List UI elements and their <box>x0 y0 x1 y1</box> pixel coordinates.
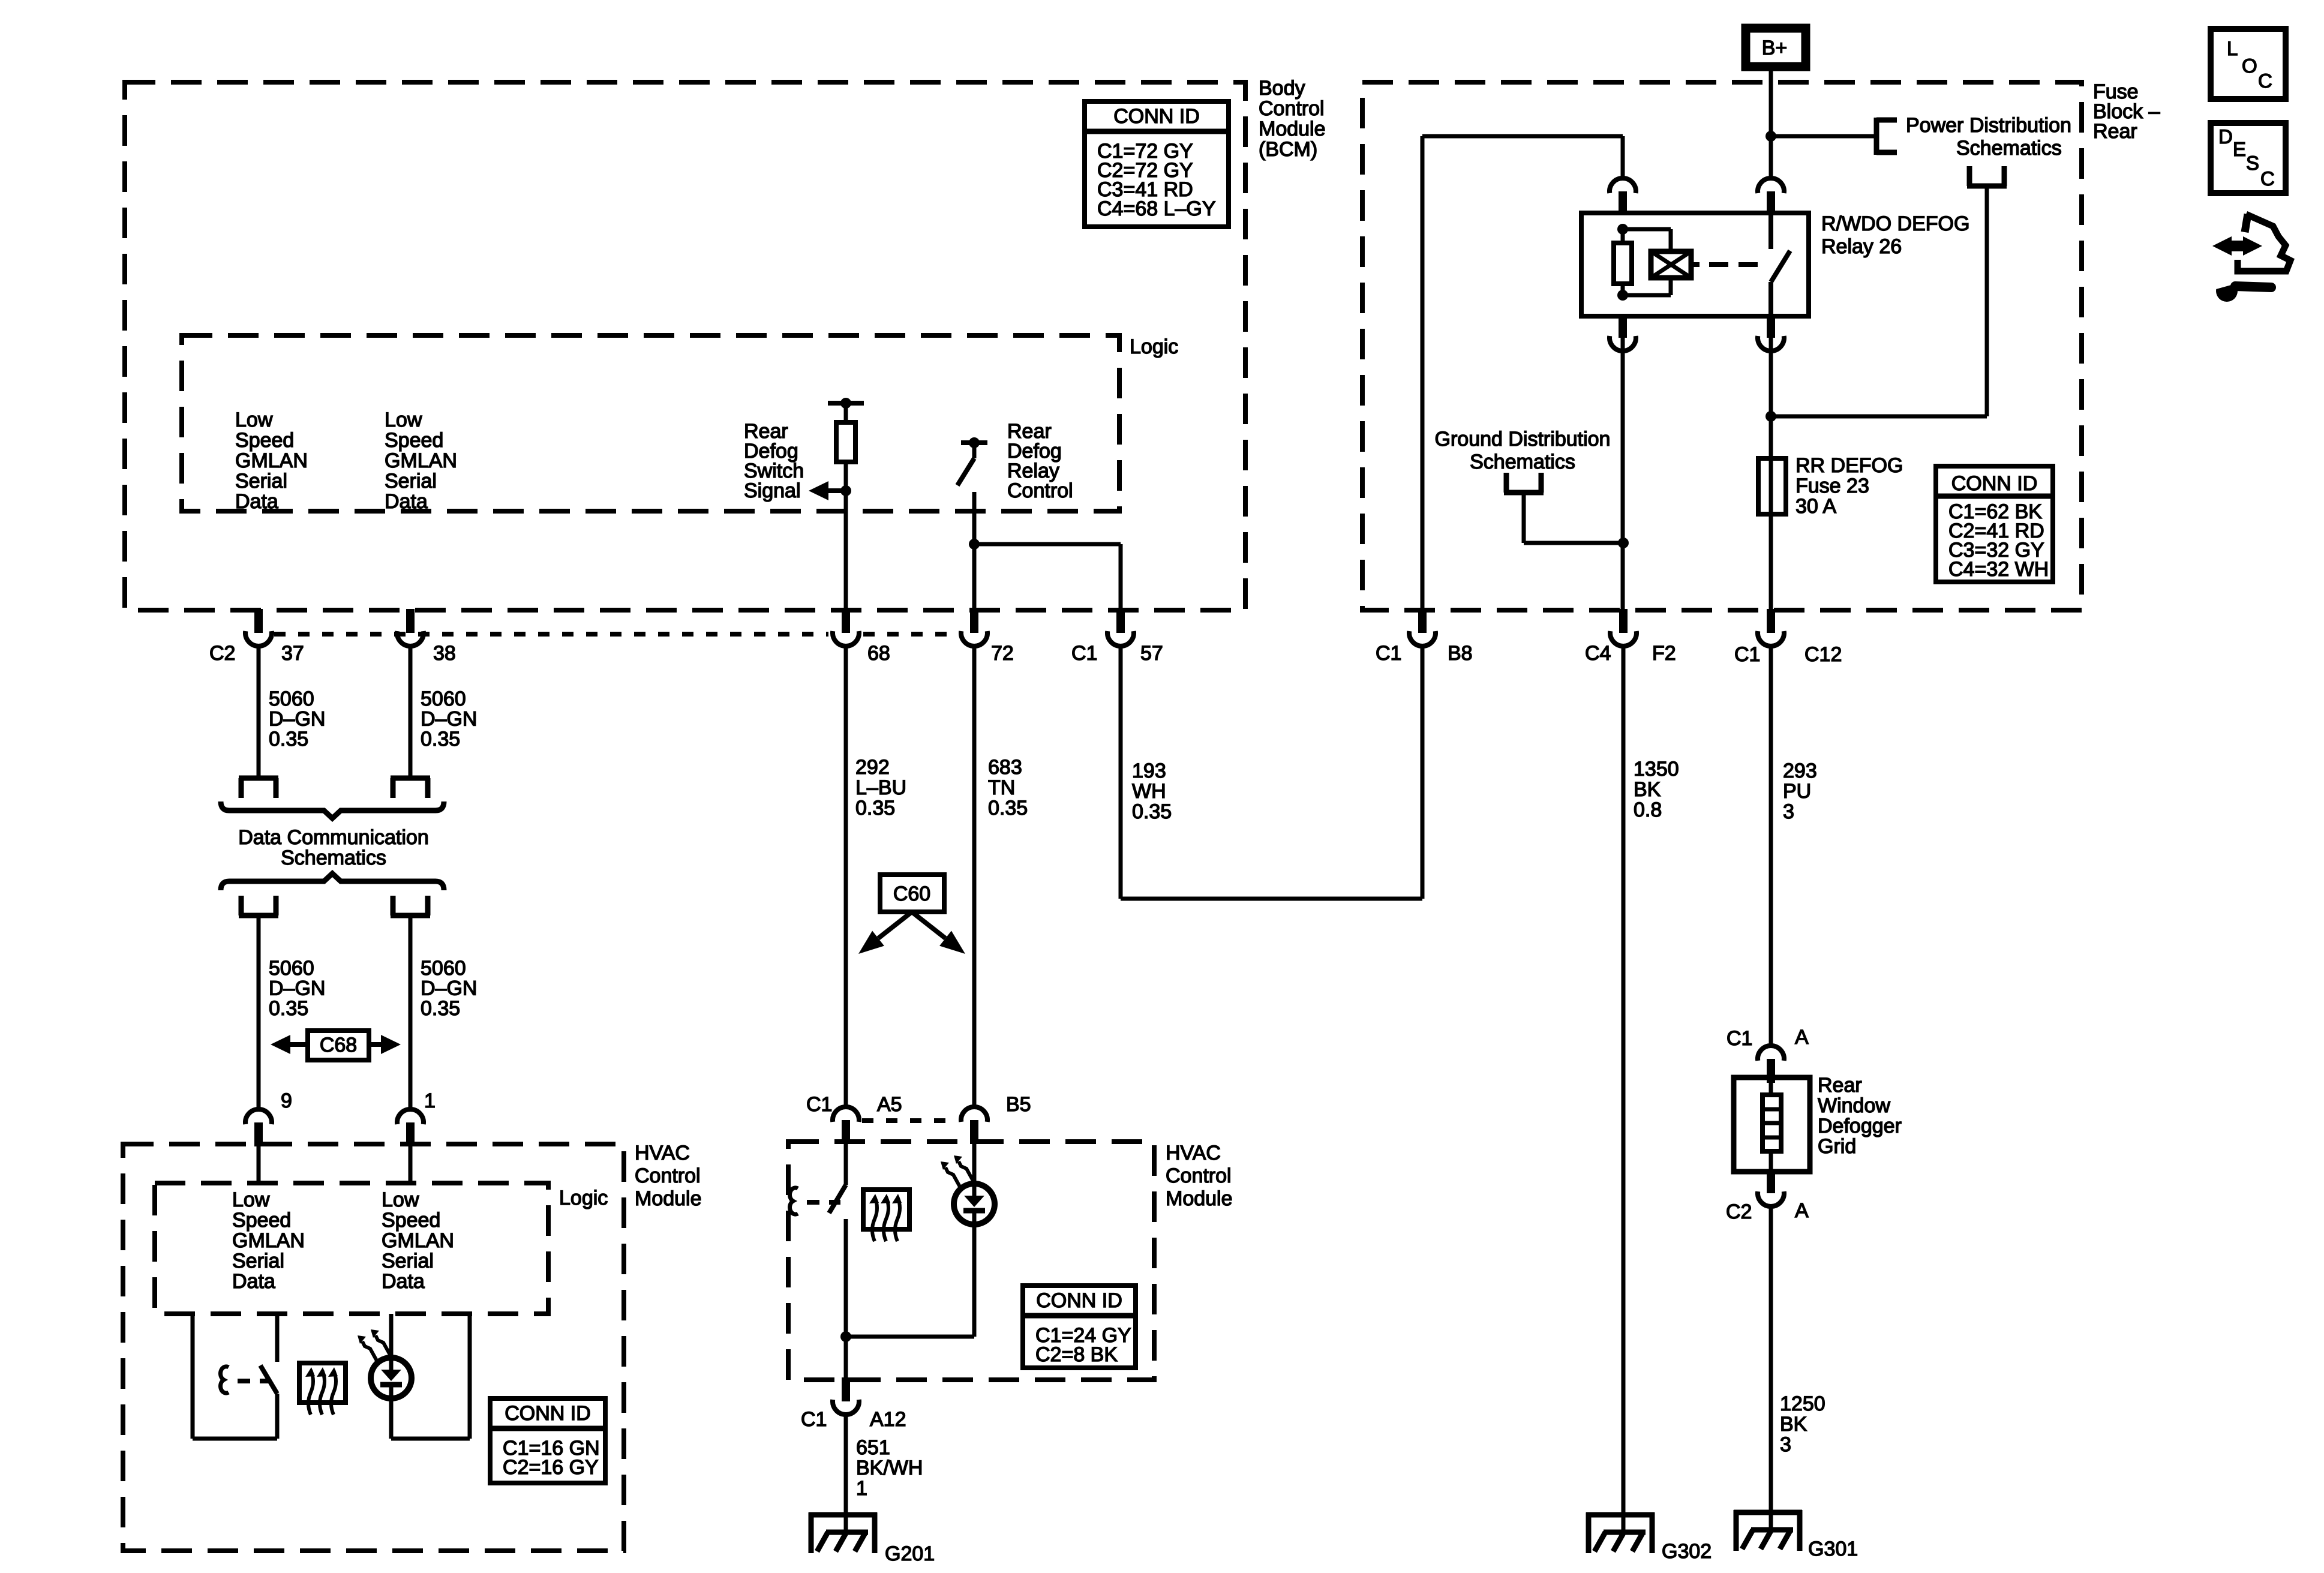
wire: LED loop right leg <box>468 1314 472 1439</box>
wire 651 BK/WH: A12 to ground <box>844 1415 848 1531</box>
module box: HVAC Control Module (left) dashed outline <box>123 1144 624 1551</box>
connector row dotted line (HVAC C1) <box>862 1118 958 1123</box>
svg-text:5060: 5060 <box>421 688 466 710</box>
svg-text:3: 3 <box>1783 800 1794 823</box>
wire: down to relay coil terminal <box>1621 136 1625 179</box>
svg-text:Schematics: Schematics <box>1956 137 2062 160</box>
svg-text:A12: A12 <box>870 1408 906 1431</box>
svg-text:0.35: 0.35 <box>269 997 308 1020</box>
wire 1250 BK: grid to G301 <box>1769 1206 1773 1529</box>
off-page pointer (37 to data communication) <box>239 776 278 781</box>
svg-text:C1: C1 <box>1071 642 1097 665</box>
svg-text:57: 57 <box>1140 642 1163 665</box>
svg-text:Power Distribution: Power Distribution <box>1906 114 2071 137</box>
wire: pin 1 into logic <box>409 1146 413 1183</box>
module box: Fuse Block - Rear dashed outline <box>1362 82 2082 610</box>
svg-text:683: 683 <box>988 756 1022 779</box>
svg-text:L–BU: L–BU <box>855 776 906 799</box>
arrow: C68 to wire 9 (left) <box>271 1035 290 1054</box>
wire: fuse 23 to C12 <box>1769 514 1773 611</box>
svg-text:72: 72 <box>991 642 1014 665</box>
connector row dotted line (BCM C2/C1) <box>274 632 828 637</box>
svg-text:5060: 5060 <box>269 688 314 710</box>
svg-text:293: 293 <box>1783 760 1817 782</box>
svg-text:Low: Low <box>385 409 422 431</box>
svg-text:C12: C12 <box>1804 643 1842 666</box>
svg-text:0.35: 0.35 <box>1132 800 1172 823</box>
wire: stub to resistor R1 <box>844 403 848 422</box>
switch contact bar (Rear Defog Relay Control driver) <box>961 440 987 445</box>
svg-text:Speed: Speed <box>382 1209 440 1232</box>
terminal: relay coil - (fuse block cavity) <box>1619 314 1627 338</box>
svg-text:Control: Control <box>635 1164 701 1187</box>
wire: switch lower contact down to BCM terminal 72 <box>972 492 977 611</box>
svg-text:Speed: Speed <box>232 1209 291 1232</box>
table: CONN ID (HVAC left) <box>490 1398 605 1483</box>
svg-text:A: A <box>1795 1026 1809 1049</box>
svg-text:Defogger: Defogger <box>1818 1115 1902 1137</box>
power feed B+ box <box>1746 28 1806 67</box>
switch dashes (HVAC left) <box>238 1379 271 1383</box>
junction dot: A12 node <box>840 1331 851 1342</box>
terminal: BCM pin 68 <box>842 609 850 633</box>
svg-text:3: 3 <box>1780 1433 1791 1456</box>
switch stub <box>972 443 977 458</box>
wire: LED down (HVAC left) <box>389 1386 394 1439</box>
svg-text:CONN ID: CONN ID <box>505 1402 591 1425</box>
grid element <box>1762 1095 1781 1151</box>
off-page pointer (38 to data communication) <box>391 776 430 781</box>
svg-text:0.8: 0.8 <box>1634 798 1662 821</box>
wire: drop to relay output node <box>1771 415 1987 419</box>
wire: resistor R1 to junction <box>844 462 848 493</box>
wire 292 L-BU: BCM 68 to HVAC A5 <box>844 646 848 1109</box>
svg-text:Speed: Speed <box>235 429 294 452</box>
wire: LED branch to A12 node <box>846 1335 974 1339</box>
svg-text:Control: Control <box>1007 479 1073 502</box>
terminal: BCM C1 pin 57 <box>1116 609 1125 633</box>
logic box: BCM Logic dashed outline <box>182 335 1119 511</box>
terminal: HVAC C1 A5 <box>842 1120 850 1144</box>
svg-text:Relay 26: Relay 26 <box>1821 235 1902 258</box>
svg-text:Schematics: Schematics <box>281 846 386 869</box>
table: CONN ID (BCM) <box>1085 101 1229 227</box>
resistor R1: Rear Defog Switch Signal pull-up <box>836 422 855 462</box>
svg-text:O: O <box>2242 55 2257 77</box>
svg-text:Serial: Serial <box>235 470 287 493</box>
wire 293 PU: C12 to grid connector <box>1769 646 1773 1046</box>
switch blade (HVAC center defog switch) <box>829 1185 846 1213</box>
svg-text:RR DEFOG: RR DEFOG <box>1795 454 1903 477</box>
heater element icon (HVAC left) <box>299 1363 346 1403</box>
svg-text:F2: F2 <box>1652 642 1676 665</box>
arrow: C60 to wire 683 (down-right) <box>912 912 945 938</box>
junction dot: relay output node <box>1765 411 1776 422</box>
wire: inside fuse <box>1769 458 1773 514</box>
LED indicator (HVAC left) <box>371 1358 412 1398</box>
svg-text:R/WDO DEFOG: R/WDO DEFOG <box>1821 212 1969 235</box>
wire: coil branch top <box>1623 227 1671 232</box>
momentary hook (HVAC left switch) <box>221 1367 229 1393</box>
relay switch blade (open) <box>1771 251 1790 282</box>
wire: branch from 72 wire to 57 wire <box>974 542 1121 547</box>
wire: switch to junction A12 <box>844 1219 848 1380</box>
svg-text:9: 9 <box>281 1089 292 1112</box>
terminal: relay coil + (fuse block cavity) <box>1619 191 1627 215</box>
terminal: relay common (fuse block cavity) <box>1767 191 1775 215</box>
svg-text:G302: G302 <box>1662 1540 1712 1563</box>
svg-text:651: 651 <box>856 1436 890 1459</box>
wire: coil resistor top <box>1621 229 1625 243</box>
switch blade (HVAC left defog switch) <box>260 1365 277 1394</box>
svg-text:C1: C1 <box>1727 1027 1752 1050</box>
svg-text:37: 37 <box>281 642 304 665</box>
svg-text:WH: WH <box>1132 780 1166 803</box>
node: resistor top stub bar <box>828 401 864 406</box>
wire 5060 D-GN from pin 38 <box>409 646 413 778</box>
brace: to Data Communication Schematics (top) <box>221 801 444 818</box>
wire: power distribution drop down <box>1985 186 1989 416</box>
wire: logic to LED (HVAC left) <box>389 1314 394 1371</box>
svg-text:1: 1 <box>424 1089 436 1112</box>
wire 683 TN: BCM 72 to HVAC B5 <box>972 646 977 1109</box>
svg-text:30 A: 30 A <box>1795 495 1836 518</box>
svg-text:0.35: 0.35 <box>421 728 460 751</box>
wire 5060 D-GN from pin 37 <box>257 646 261 778</box>
wire: pin 9 into logic <box>257 1146 261 1183</box>
icon: service manual (animal head with arrow and wrench) <box>2212 236 2232 256</box>
wire: down to BCM terminal 57 <box>1119 544 1123 611</box>
svg-text:Logic: Logic <box>1130 335 1178 358</box>
ground G201 <box>809 1512 877 1518</box>
svg-text:PU: PU <box>1783 780 1811 803</box>
terminal: BCM pin 72 <box>970 609 978 633</box>
inline connector C1 A (grid feed) <box>1767 1059 1775 1083</box>
wire: coil resistor bottom <box>1621 284 1625 295</box>
svg-text:0.35: 0.35 <box>269 728 308 751</box>
icon box: LOC <box>2211 29 2286 99</box>
svg-text:C2: C2 <box>209 642 235 665</box>
svg-text:G301: G301 <box>1808 1538 1858 1560</box>
svg-text:E: E <box>2233 138 2246 160</box>
junction dot: B+ distribution node <box>1765 131 1776 142</box>
heater element icon (HVAC center) <box>863 1190 909 1229</box>
relay coil (box with X) <box>1651 251 1691 278</box>
wire: signal node down to BCM terminal 68 <box>844 491 848 611</box>
svg-text:CONN ID: CONN ID <box>1951 472 2038 495</box>
svg-text:C60: C60 <box>893 882 930 905</box>
svg-text:C2: C2 <box>1726 1200 1752 1223</box>
LED indicator (HVAC center) <box>954 1184 995 1224</box>
wire: B+ into fuse block <box>1769 67 1773 179</box>
logic box: HVAC left Logic dashed outline <box>155 1183 548 1314</box>
svg-text:HVAC: HVAC <box>1166 1142 1221 1164</box>
svg-text:C: C <box>2260 167 2275 190</box>
svg-text:CONN ID: CONN ID <box>1113 105 1200 128</box>
svg-text:Low: Low <box>382 1188 419 1211</box>
svg-text:C2=8 BK: C2=8 BK <box>1035 1343 1118 1366</box>
arrow: C68 to wire 1 (right) <box>381 1035 401 1054</box>
junction dot: coil top node <box>1617 224 1628 235</box>
off-page pointer: power distribution schematics <box>1874 118 1879 155</box>
svg-text:D–GN: D–GN <box>269 708 325 731</box>
connector row dotted line (cont.) <box>863 632 958 637</box>
svg-text:Serial: Serial <box>382 1250 434 1272</box>
svg-text:C4: C4 <box>1585 642 1611 665</box>
wire: relay output to fuse 23 <box>1769 416 1773 458</box>
terminal: HVAC C1 A12 <box>842 1377 850 1401</box>
wire 1350 BK: F2 to G302 <box>1622 646 1626 1531</box>
wire 5060 D-GN to HVAC pin 1 <box>409 915 413 1109</box>
wire: B5 to LED <box>972 1144 977 1197</box>
LED light arrows (HVAC left) <box>362 1341 377 1361</box>
relay switch fixed contact <box>1768 213 1773 249</box>
svg-text:Data: Data <box>385 490 428 513</box>
svg-text:Grid: Grid <box>1818 1135 1856 1158</box>
inline connector box C68 <box>308 1031 369 1060</box>
svg-text:Rear: Rear <box>1818 1074 1862 1097</box>
svg-text:C68: C68 <box>320 1034 357 1056</box>
svg-text:68: 68 <box>867 642 890 665</box>
svg-text:GMLAN: GMLAN <box>382 1229 454 1252</box>
svg-text:Control: Control <box>1166 1164 1232 1187</box>
module box: Body Control Module (BCM) dashed outline <box>125 82 1245 610</box>
inline connector box C60 <box>880 875 944 912</box>
wire: switch fixed contact stub <box>275 1314 280 1362</box>
svg-text:Module: Module <box>1259 118 1326 140</box>
svg-text:Ground Distribution: Ground Distribution <box>1435 428 1611 451</box>
svg-text:C1: C1 <box>1376 642 1401 665</box>
svg-text:C1: C1 <box>806 1093 832 1116</box>
svg-text:A5: A5 <box>877 1093 902 1116</box>
module box: HVAC Control Module (center) dashed outline <box>788 1142 1154 1380</box>
svg-text:Schematics: Schematics <box>1470 451 1575 473</box>
off-page pointer: power distribution (return drop) <box>1967 184 2007 189</box>
svg-text:193: 193 <box>1132 760 1166 782</box>
wire: ground distribution to relay coil return <box>1524 541 1623 545</box>
svg-text:C: C <box>2258 70 2272 92</box>
terminal: BCM C2 pin 37 <box>254 609 263 633</box>
table: CONN ID (fuse block) <box>1936 466 2053 582</box>
svg-text:B+: B+ <box>1762 37 1788 59</box>
svg-text:HVAC: HVAC <box>635 1142 690 1164</box>
svg-text:0.35: 0.35 <box>421 997 460 1020</box>
svg-text:D–GN: D–GN <box>269 977 325 1000</box>
svg-text:G201: G201 <box>885 1542 935 1565</box>
svg-text:Data Communication: Data Communication <box>238 826 428 849</box>
wire: relay output down <box>1769 338 1773 416</box>
svg-text:A: A <box>1795 1199 1809 1222</box>
terminal: HVAC pin 1 <box>406 1122 415 1146</box>
LED light arrows (HVAC center) <box>945 1167 960 1187</box>
svg-text:Logic: Logic <box>559 1187 608 1209</box>
wire: ground distribution drop <box>1522 493 1526 543</box>
off-page pointer (data communication to pin 9) <box>239 913 278 918</box>
junction dot at resistor top <box>840 398 851 409</box>
wire 193 WH: BCM 57 to fuse block B8 <box>1119 646 1123 899</box>
svg-text:38: 38 <box>433 642 456 665</box>
wire: BCM feed from B8 up <box>1421 136 1425 611</box>
svg-text:5060: 5060 <box>421 957 466 980</box>
wire: coil branch bottom <box>1669 278 1673 295</box>
wire: LED down to junction row <box>972 1212 977 1337</box>
svg-text:Low: Low <box>232 1188 270 1211</box>
icon box: DESC <box>2211 123 2286 193</box>
svg-text:292: 292 <box>855 756 890 779</box>
off-page pointer: ground distribution schematics <box>1504 490 1544 496</box>
terminal: HVAC pin 9 <box>254 1122 263 1146</box>
svg-text:0.35: 0.35 <box>855 797 895 819</box>
svg-text:Fuse 23: Fuse 23 <box>1795 475 1869 497</box>
svg-text:Rear: Rear <box>2093 120 2137 143</box>
ground G302 <box>1586 1512 1655 1518</box>
svg-text:5060: 5060 <box>269 957 314 980</box>
wire: LED loop bottom <box>391 1437 470 1441</box>
svg-text:(BCM): (BCM) <box>1259 138 1317 161</box>
brace: from Data Communication Schematics (bottom) <box>221 873 444 890</box>
svg-text:Serial: Serial <box>232 1250 284 1272</box>
svg-text:GMLAN: GMLAN <box>232 1229 305 1252</box>
junction dot: relay control to pin 57 branch <box>969 539 980 550</box>
wire: grid internal bottom <box>1769 1151 1773 1172</box>
arrow: C60 to wire 292 (down-left) <box>878 912 912 938</box>
svg-text:B5: B5 <box>1006 1093 1031 1116</box>
relay switch lower contact <box>1768 282 1773 316</box>
relay actuator dashed link <box>1709 262 1760 267</box>
svg-text:TN: TN <box>988 776 1015 799</box>
svg-text:Speed: Speed <box>385 429 443 452</box>
ground G301 <box>1734 1510 1802 1515</box>
fuse RR DEFOG Fuse 23 30A <box>1758 458 1786 514</box>
relay R/WDO DEFOG Relay 26 box <box>1581 213 1809 316</box>
table: CONN ID (HVAC center) <box>1023 1286 1136 1368</box>
junction dot: coil return node <box>1618 538 1629 548</box>
terminal: BCM C2 pin 38 <box>406 609 415 633</box>
switch blade (open, BCM relay driver) <box>957 458 974 485</box>
terminal: fuse block C1 B8 <box>1418 609 1427 633</box>
svg-text:GMLAN: GMLAN <box>385 449 457 472</box>
wire: A5 to switch <box>844 1144 848 1185</box>
component box: Rear Window Defogger Grid <box>1734 1077 1810 1172</box>
wire: switch loop right leg <box>275 1394 280 1439</box>
wire: B8 feed to relay coil <box>1422 134 1623 139</box>
svg-text:BK: BK <box>1780 1413 1807 1436</box>
svg-text:C4=68 L–GY: C4=68 L–GY <box>1097 197 1216 220</box>
svg-text:Module: Module <box>635 1187 702 1210</box>
svg-text:Module: Module <box>1166 1187 1233 1210</box>
svg-text:BK: BK <box>1634 778 1661 801</box>
junction dot: coil bottom node <box>1617 290 1628 301</box>
svg-text:Control: Control <box>1259 97 1325 120</box>
terminal: HVAC B5 <box>970 1120 978 1144</box>
svg-text:C4=32 WH: C4=32 WH <box>1948 558 2049 581</box>
svg-text:GMLAN: GMLAN <box>235 449 308 472</box>
wire: switch loop bottom <box>193 1437 277 1441</box>
svg-text:Data: Data <box>382 1270 425 1293</box>
svg-text:B8: B8 <box>1448 642 1473 665</box>
svg-text:Window: Window <box>1818 1094 1890 1117</box>
terminal: fuse block C1 C12 <box>1767 609 1775 633</box>
svg-text:D–GN: D–GN <box>421 977 477 1000</box>
wire 5060 D-GN to HVAC pin 9 <box>257 915 261 1109</box>
arrow: rear defog switch signal (points left) <box>809 481 828 500</box>
svg-text:0.35: 0.35 <box>988 797 1028 819</box>
terminal: fuse block C4 F2 <box>1619 609 1628 633</box>
terminal: relay output (fuse block cavity) <box>1767 314 1775 338</box>
junction dot: rear defog switch signal node <box>840 485 851 496</box>
wire: B+ node to power distribution pointer <box>1771 134 1876 139</box>
svg-text:Data: Data <box>235 490 278 513</box>
svg-text:D–GN: D–GN <box>421 708 477 731</box>
svg-text:1250: 1250 <box>1780 1392 1825 1415</box>
svg-text:Low: Low <box>235 409 273 431</box>
svg-text:C1: C1 <box>1734 643 1760 666</box>
svg-text:C1: C1 <box>801 1408 827 1431</box>
svg-text:C2=16 GY: C2=16 GY <box>503 1456 599 1479</box>
svg-text:1: 1 <box>856 1477 867 1500</box>
wire: logic to defog switch loop (left leg) <box>191 1314 195 1439</box>
wire: grid internal top <box>1769 1077 1773 1095</box>
svg-text:1350: 1350 <box>1634 758 1679 781</box>
terminal: grid C2 A <box>1767 1169 1775 1193</box>
svg-text:D: D <box>2218 125 2233 148</box>
momentary hook (HVAC center switch) <box>790 1188 798 1214</box>
switch dashes (HVAC center) <box>807 1200 840 1205</box>
wire: relay coil - down to F2 <box>1621 338 1625 611</box>
svg-text:Data: Data <box>232 1270 275 1293</box>
relay coil suppression resistor <box>1614 243 1632 284</box>
svg-text:S: S <box>2246 152 2259 174</box>
svg-text:Signal: Signal <box>744 479 801 502</box>
svg-text:Body: Body <box>1259 77 1305 100</box>
junction dot on switch contact bar <box>969 437 980 448</box>
svg-text:CONN ID: CONN ID <box>1036 1289 1122 1312</box>
svg-text:BK/WH: BK/WH <box>856 1457 923 1479</box>
relay actuator stub <box>1691 262 1700 267</box>
svg-text:L: L <box>2227 37 2238 59</box>
svg-text:Serial: Serial <box>385 470 437 493</box>
off-page pointer (data communication to pin 1) <box>391 913 430 918</box>
